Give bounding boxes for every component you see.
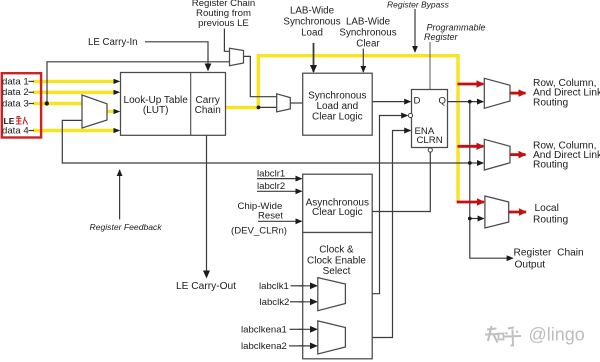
svg-text:CLRN: CLRN <box>417 135 443 146</box>
svg-text:labclk1: labclk1 <box>259 281 289 292</box>
svg-text:LAB-Wide: LAB-Wide <box>346 17 391 28</box>
svg-text:data 3: data 3 <box>2 98 29 109</box>
svg-text:Local: Local <box>535 203 559 214</box>
svg-text:labclkena2: labclkena2 <box>241 341 287 352</box>
svg-text:Load and: Load and <box>316 101 358 112</box>
svg-text:Register Feedback: Register Feedback <box>90 222 163 232</box>
svg-text:(DEV_CLRn): (DEV_CLRn) <box>231 226 287 237</box>
svg-text:data 1: data 1 <box>2 76 29 87</box>
svg-text:@lingo: @lingo <box>529 325 585 345</box>
svg-text:Register: Register <box>424 32 459 42</box>
svg-text:Clear Logic: Clear Logic <box>312 207 363 218</box>
svg-text:labclr1: labclr1 <box>257 169 285 180</box>
svg-text:data 2: data 2 <box>2 87 29 98</box>
svg-text:Load: Load <box>301 28 323 39</box>
svg-text:Chain: Chain <box>195 105 221 116</box>
svg-text:Routing: Routing <box>533 160 568 171</box>
svg-text:Reset: Reset <box>258 210 283 221</box>
svg-text:Synchronous: Synchronous <box>339 28 396 39</box>
svg-text:Clock &: Clock & <box>319 245 354 256</box>
svg-text:Routing: Routing <box>533 97 568 108</box>
svg-text:Synchronous: Synchronous <box>308 90 366 101</box>
svg-text:Select: Select <box>323 266 351 277</box>
svg-text:data 4: data 4 <box>2 125 29 136</box>
svg-text:Register Bypass: Register Bypass <box>387 0 450 9</box>
svg-text:LE Carry-Out: LE Carry-Out <box>176 281 236 292</box>
svg-text:labclk2: labclk2 <box>260 297 290 308</box>
svg-text:Synchronous: Synchronous <box>283 17 340 28</box>
svg-text:labclkena1: labclkena1 <box>241 324 287 335</box>
svg-text:Clear Logic: Clear Logic <box>312 112 363 123</box>
svg-text:previous LE: previous LE <box>198 18 249 29</box>
svg-text:LE Carry-In: LE Carry-In <box>88 37 138 48</box>
svg-text:Output: Output <box>515 260 546 271</box>
svg-text:Programmable: Programmable <box>427 23 486 33</box>
svg-text:LAB-Wide: LAB-Wide <box>290 5 335 16</box>
svg-text:Clock Enable: Clock Enable <box>307 255 366 266</box>
svg-text:Q: Q <box>439 96 446 107</box>
svg-text:D: D <box>414 96 421 107</box>
svg-text:LE: LE <box>4 116 15 126</box>
svg-text:Register Chain: Register Chain <box>514 248 584 259</box>
svg-text:Clear: Clear <box>356 38 380 49</box>
svg-text:(LUT): (LUT) <box>143 105 169 116</box>
svg-text:labclr2: labclr2 <box>257 181 285 192</box>
svg-text:Routing: Routing <box>533 214 568 225</box>
